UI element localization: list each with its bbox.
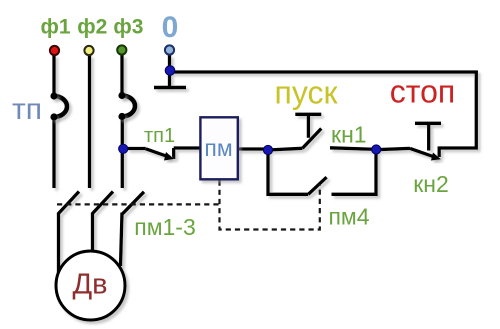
- svg-text:пуск: пуск: [275, 75, 339, 111]
- svg-text:стоп: стоп: [390, 74, 455, 110]
- svg-text:ф2: ф2: [77, 16, 107, 39]
- svg-text:пм4: пм4: [328, 204, 369, 230]
- svg-text:ф1: ф1: [40, 16, 70, 39]
- svg-text:пм1-3: пм1-3: [134, 214, 196, 240]
- svg-text:кн1: кн1: [331, 122, 367, 148]
- svg-text:кн2: кн2: [413, 171, 449, 197]
- svg-text:тп: тп: [12, 93, 42, 126]
- svg-text:0: 0: [162, 11, 179, 44]
- svg-text:Дв: Дв: [72, 269, 107, 301]
- svg-text:ф3: ф3: [113, 16, 143, 39]
- svg-text:тп1: тп1: [144, 125, 175, 147]
- svg-text:пм: пм: [204, 135, 232, 161]
